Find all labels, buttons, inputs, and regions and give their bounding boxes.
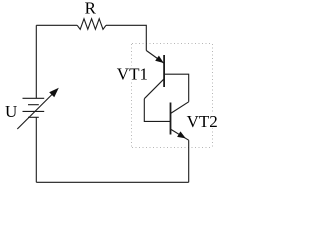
wire: VT1 collector down and right to VT2 base	[144, 99, 170, 122]
dashed box (VT1-VT2 thyristor equivalent outline)	[132, 44, 213, 148]
VT1 emitter line with inward arrow	[146, 51, 163, 64]
VT1 collector line	[144, 79, 164, 99]
voltage source U (adjustable battery)	[17, 91, 55, 129]
VT2 base bar	[170, 103, 172, 135]
wire: VT1 base to VT2 collector	[164, 74, 189, 102]
wire: top horizontal from resistor to top-right corner, down to VT1 emitter	[106, 25, 146, 50]
svg-text:VT2: VT2	[187, 112, 218, 131]
wire: top-left horizontal from left branch to resistor	[36, 24, 77, 26]
label VT1	[116, 64, 148, 83]
VT2 emitter line with outward arrow	[171, 129, 189, 140]
svg-text:U: U	[5, 102, 17, 121]
VT2 collector line	[171, 102, 189, 114]
resistor R	[77, 19, 106, 30]
adjustment arrowhead of source U	[49, 88, 59, 98]
wire: bottom horizontal	[36, 181, 188, 183]
wire: right vertical from bottom-right corner up to VT2 emitter	[188, 140, 190, 182]
svg-text:VT1: VT1	[117, 64, 148, 83]
svg-text:R: R	[85, 0, 97, 18]
transistor VT1 (PNP)	[144, 51, 164, 99]
VT1 base bar	[163, 55, 165, 87]
wire: left vertical from top-left corner down to source U	[35, 25, 37, 98]
wire: left vertical from source U down to bottom-left corner	[35, 117, 37, 182]
label VT2	[186, 112, 219, 131]
transistor VT2 (NPN)	[171, 102, 189, 140]
